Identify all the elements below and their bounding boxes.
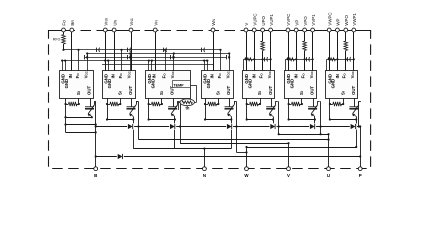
- resistor R3 gate: [152, 102, 161, 106]
- wire Q1 collector to B column: [95, 101, 96, 103]
- pin VVP1 (top terminal): [311, 28, 315, 32]
- pin WPO (top terminal): [344, 28, 348, 32]
- wire cell5 emitter tie: [247, 119, 273, 121]
- svg-text:SI: SI: [159, 91, 164, 95]
- svg-text:FO: FO: [342, 73, 347, 79]
- wire cell5 Si stub: [260, 98, 262, 104]
- wire top rail segment: [210, 30, 219, 32]
- wire WN input drop: [114, 30, 116, 71]
- svg-text:VCC: VCC: [170, 70, 175, 78]
- wire UN input drop: [213, 30, 215, 71]
- wire cell1 ties to B column: [66, 124, 96, 126]
- wire cell1 emitter tie: [66, 117, 92, 119]
- wire block3 GND stub: [148, 61, 150, 71]
- wire thermistor lead: [178, 102, 180, 104]
- svg-text:VVP1: VVP1: [311, 14, 316, 26]
- wire top rail segment: [102, 30, 140, 32]
- wire cell1 OUT to gate: [90, 98, 92, 107]
- svg-text:B: B: [94, 173, 97, 178]
- thermistor th: [180, 99, 194, 106]
- wire cell2 emitter tie: [107, 119, 133, 121]
- pin U (bottom terminal): [327, 167, 331, 171]
- wire Q4 collector: [234, 101, 236, 105]
- wire group3 input drop: [337, 30, 339, 71]
- svg-text:SI: SI: [340, 91, 345, 95]
- wire P column: [360, 127, 362, 169]
- wire Q7 emitter: [356, 117, 358, 120]
- pin B (bottom terminal): [94, 167, 98, 171]
- svg-text:th: th: [186, 106, 190, 111]
- svg-text:VN1: VN1: [129, 18, 134, 26]
- pin V (top terminal): [129, 28, 133, 32]
- svg-text:VVPC: VVPC: [286, 14, 291, 26]
- capacitor C8 bootstrap: [306, 57, 308, 61]
- svg-text:OUT: OUT: [128, 86, 133, 95]
- svg-text:GND: GND: [247, 79, 252, 89]
- wire block4 Vcc stub: [229, 54, 231, 71]
- transistor Q5 IGBT: [266, 105, 276, 117]
- svg-text:GND: GND: [289, 79, 294, 89]
- wire Q4 collector to output: [236, 101, 238, 152]
- resistor R5 gate: [250, 102, 259, 106]
- resistor R3G: [328, 58, 336, 61]
- wire cell3 emitter tie: [149, 119, 175, 121]
- wire cell4 Si stub: [218, 98, 220, 104]
- svg-text:OUT: OUT: [310, 86, 315, 95]
- wire Fo bus: [64, 49, 221, 51]
- wire aux bus: [102, 64, 213, 66]
- wire W-high link: [247, 147, 357, 149]
- wire block4 GND stub: [204, 61, 206, 71]
- wire cell5 OUT to gate: [271, 98, 273, 107]
- svg-text:V: V: [244, 23, 249, 26]
- svg-text:VCC: VCC: [225, 70, 230, 78]
- capacitor C2b on Fo bus: [163, 48, 165, 52]
- capacitor C5 decoupling block 3: [170, 55, 172, 59]
- wire group3 bus tail: [326, 59, 328, 70]
- svg-text:IN: IN: [252, 74, 257, 78]
- wire BR input drop: [71, 30, 73, 71]
- module outline (dash-dot package boundary): [49, 31, 371, 169]
- svg-text:OUT: OUT: [268, 86, 273, 95]
- pin VUP1 (top terminal): [269, 28, 273, 32]
- svg-text:FO: FO: [62, 20, 67, 26]
- capacitor C2c on Fo bus: [201, 48, 203, 52]
- svg-text:UN: UN: [112, 19, 117, 25]
- wire Q5 collector: [275, 101, 277, 105]
- transistor Q1 IGBT: [85, 105, 95, 117]
- wire cell4 OUT to gate: [229, 98, 231, 107]
- svg-text:VCC: VCC: [350, 70, 355, 78]
- wire cell3 Si stub: [161, 98, 163, 104]
- pin W (bottom terminal): [245, 167, 249, 171]
- wire cell1 left rail: [65, 98, 67, 132]
- svg-text:SI: SI: [299, 91, 304, 95]
- svg-text:GND: GND: [150, 79, 155, 89]
- wire Q6 collector: [317, 101, 319, 105]
- resistor R1G: [245, 58, 253, 61]
- wire GND bus: [63, 60, 209, 62]
- pin U (top terminal): [112, 28, 116, 32]
- wire Q7 emitter to W link: [356, 120, 358, 148]
- wire TEMP to thermistor: [190, 85, 196, 87]
- svg-text:VWP1: VWP1: [352, 13, 357, 26]
- svg-text:SI: SI: [257, 91, 262, 95]
- pin B (top terminal): [70, 28, 74, 32]
- svg-text:WPO: WPO: [344, 15, 349, 26]
- wire Q2 emitter: [133, 117, 135, 120]
- svg-text:VCC: VCC: [126, 70, 131, 78]
- op-amp U-high driver U7 gate-driver IC block: [326, 70, 358, 98]
- wire cell4 left rail: [205, 98, 207, 119]
- resistor R1B bootstrap (vertical): [262, 30, 264, 41]
- resistor R2 gate: [110, 102, 119, 106]
- svg-text:RFO: RFO: [53, 37, 61, 42]
- wire Q5 emitter: [273, 117, 275, 120]
- svg-text:IN: IN: [68, 74, 73, 78]
- wire Q4 emitter: [231, 117, 233, 120]
- svg-text:SI: SI: [76, 91, 81, 95]
- wire group2 Vs drop: [312, 30, 314, 71]
- transistor Q3 IGBT: [168, 105, 178, 117]
- svg-text:VCC: VCC: [267, 70, 272, 78]
- svg-text:U: U: [327, 173, 330, 178]
- wire Q7 collector: [358, 101, 360, 105]
- wire group3 Vs drop: [353, 30, 355, 71]
- wire block2 GND stub: [105, 61, 107, 71]
- diode D3 freewheel: [227, 124, 232, 129]
- resistor R2B bootstrap (vertical): [304, 30, 306, 41]
- wire cell2 OUT to gate: [131, 98, 133, 107]
- wire Vcc bus: [88, 53, 230, 55]
- wire block1 Vcc stub: [87, 54, 89, 71]
- pin V (top terminal): [153, 28, 157, 32]
- svg-text:GND: GND: [64, 79, 69, 89]
- pin VVPC (top terminal): [286, 28, 290, 32]
- wire Q1 emitter: [91, 116, 93, 119]
- wire Q2 emitter to N bus: [133, 120, 135, 149]
- wire cell6 emitter tie: [289, 119, 315, 121]
- wire V output line: [180, 143, 288, 145]
- wire group2 VBS drop: [288, 30, 290, 71]
- wire VN input drop: [155, 30, 157, 71]
- svg-text:GND: GND: [331, 79, 336, 89]
- capacitor C4 decoupling block 2: [127, 55, 129, 59]
- diode D1 freewheel: [128, 124, 133, 129]
- op-amp V-low driver U3 (with TEMP) gate-driver IC block: [146, 70, 191, 98]
- op-amp W-high driver U5 gate-driver IC block: [243, 70, 275, 98]
- svg-text:VPO: VPO: [303, 16, 308, 26]
- wire cell7 left rail: [329, 98, 331, 119]
- wire Q3 emitter to N bus: [174, 120, 176, 149]
- wire cell2 left rail: [107, 98, 109, 119]
- transistor Q7 IGBT: [349, 105, 359, 117]
- pin VWPC (top terminal): [327, 28, 331, 32]
- diode D4 freewheel: [270, 124, 275, 129]
- pin P (bottom terminal): [358, 167, 362, 171]
- svg-text:GND: GND: [107, 79, 112, 89]
- wire block1 Fo stub: [78, 50, 80, 71]
- svg-text:IN: IN: [111, 74, 116, 78]
- node B column: [95, 101, 97, 168]
- wire W column: [246, 152, 248, 168]
- wire decoupling bus: [85, 57, 226, 59]
- svg-text:FO: FO: [258, 73, 263, 79]
- pin VPO (top terminal): [303, 28, 307, 32]
- wire Q5 emitter to output link: [278, 101, 280, 134]
- transistor Q6 IGBT: [308, 105, 318, 117]
- wire block3 Vcc stub: [173, 54, 175, 71]
- wire V column: [288, 143, 290, 169]
- wire cell5 left rail: [246, 98, 248, 119]
- svg-text:WN: WN: [211, 18, 216, 25]
- wire group1 local bus: [244, 59, 271, 61]
- svg-text:FO: FO: [75, 73, 80, 79]
- op-amp U-low driver U4 gate-driver IC block: [202, 70, 234, 98]
- pin VP (top terminal): [294, 28, 298, 32]
- wire group1 Vs drop: [270, 30, 272, 71]
- wire group1 VBS drop: [246, 30, 248, 71]
- wire W column upper: [246, 147, 248, 152]
- resistor R2G: [287, 58, 295, 61]
- op-amp W-low driver U2 gate-driver IC block: [103, 70, 136, 98]
- pin V (top terminal): [103, 28, 107, 32]
- capacitor C9 bootstrap: [347, 57, 349, 61]
- svg-text:OUT: OUT: [87, 86, 92, 95]
- wire block4 Fo stub: [220, 50, 222, 71]
- wire U column: [328, 134, 330, 169]
- svg-text:FO: FO: [300, 73, 305, 79]
- svg-text:VUPC: VUPC: [252, 13, 257, 25]
- svg-text:VCC: VCC: [309, 70, 314, 78]
- wire group1 input drop: [254, 30, 256, 71]
- wire top rail segment: [152, 30, 159, 32]
- diode D7 brake: [118, 154, 123, 159]
- wire Q2 collector: [136, 101, 138, 105]
- pin VWP1 (top terminal): [352, 28, 356, 32]
- wire U-high link: [279, 134, 329, 136]
- svg-text:N: N: [203, 173, 206, 178]
- wire Q3 collector to output: [180, 101, 182, 143]
- wire block2 Vcc stub: [130, 54, 132, 71]
- pin N (bottom terminal): [203, 167, 207, 171]
- capacitor C7 bootstrap: [264, 57, 266, 61]
- wire group2 bus tail: [285, 59, 287, 70]
- capacitor C2 on Fo bus: [127, 48, 129, 52]
- transistor Q4 IGBT: [225, 105, 235, 117]
- resistor RFO: [63, 30, 65, 35]
- wire cell1 Si stub: [78, 98, 80, 104]
- pin V (bottom terminal): [287, 167, 291, 171]
- pin F (top terminal): [62, 28, 66, 32]
- wire block3 Fo stub: [165, 50, 167, 71]
- wire block1 GND stub: [62, 61, 64, 71]
- wire Q6 emitter: [314, 117, 316, 120]
- wire VN0 drop: [105, 30, 107, 71]
- wire N column: [204, 149, 206, 169]
- svg-text:SI: SI: [118, 91, 123, 95]
- capacitor C3 decoupling block 1: [84, 55, 86, 59]
- pin V (top terminal): [244, 28, 248, 32]
- wire Q3 emitter: [174, 117, 176, 120]
- svg-text:WP: WP: [336, 18, 341, 25]
- svg-text:FO: FO: [162, 73, 167, 79]
- wire cell6 left rail: [288, 98, 290, 119]
- wire group3 VBS drop: [329, 30, 331, 71]
- wire cell2 Si stub: [120, 98, 122, 104]
- svg-text:UPO: UPO: [261, 16, 266, 26]
- svg-text:OUT: OUT: [226, 86, 231, 95]
- wire block2 Fo stub: [121, 50, 123, 71]
- wire group1 bus tail: [243, 59, 245, 70]
- svg-text:VN: VN: [153, 20, 158, 26]
- wire top rail segment: [48, 30, 75, 32]
- wire W-low link: [237, 152, 247, 154]
- wire Q4 emitter to N bus: [231, 120, 233, 149]
- wire top rail segment: [243, 30, 371, 32]
- wire Q1 collector: [94, 101, 96, 105]
- op-amp V-high driver U6 gate-driver IC block: [285, 70, 317, 98]
- transistor Q2 IGBT: [127, 105, 137, 117]
- wire N bus: [133, 148, 231, 150]
- svg-text:FO: FO: [217, 73, 222, 79]
- wire B-P brake line: [96, 156, 361, 158]
- op-amp brake driver U1 gate-driver IC block: [60, 70, 94, 98]
- svg-text:OUT: OUT: [351, 86, 356, 95]
- capacitor C6 decoupling block 4: [226, 55, 228, 59]
- svg-text:IN: IN: [335, 74, 340, 78]
- wire cell7 Si stub: [343, 98, 345, 104]
- wire Q2 collector to output: [138, 101, 140, 139]
- wire cell4 emitter tie: [205, 119, 231, 121]
- wire VN1 drop: [131, 30, 133, 71]
- svg-text:VP: VP: [294, 20, 299, 26]
- diode D6 freewheel: [351, 124, 356, 129]
- svg-text:BR: BR: [70, 20, 75, 26]
- wire group2 local bus: [286, 59, 313, 61]
- svg-text:SI: SI: [216, 91, 221, 95]
- wire group3 local bus: [327, 59, 354, 61]
- svg-text:TEMP: TEMP: [173, 83, 184, 87]
- svg-text:VN0: VN0: [104, 18, 109, 26]
- pin UPO (top terminal): [261, 28, 265, 32]
- resistor R7 gate: [333, 102, 342, 106]
- wire Q6 to P bus: [314, 120, 316, 127]
- wire Q3 collector: [177, 101, 179, 105]
- svg-text:IN: IN: [152, 74, 157, 78]
- svg-text:VWPC: VWPC: [327, 12, 332, 25]
- pin VUPC (top terminal): [252, 28, 256, 32]
- pin W (top terminal): [211, 28, 215, 32]
- capacitor C1 on Fo bus: [96, 48, 98, 52]
- svg-text:FO: FO: [118, 73, 123, 79]
- svg-text:VUP1: VUP1: [269, 14, 274, 26]
- svg-text:IN: IN: [210, 74, 215, 78]
- diode D5 freewheel: [310, 124, 315, 129]
- resistor R6 gate: [292, 102, 301, 106]
- wire Q6 emitter to output link: [320, 101, 322, 134]
- resistor R3B bootstrap (vertical): [345, 30, 347, 41]
- wire cell7 emitter tie: [330, 119, 356, 121]
- diode D2 freewheel: [170, 124, 175, 129]
- pin WP (top terminal): [336, 28, 340, 32]
- svg-text:IN: IN: [294, 74, 299, 78]
- resistor R4 gate: [208, 102, 217, 106]
- wire cell6 OUT to gate: [313, 98, 315, 107]
- wire cell3 left rail: [148, 98, 150, 119]
- wire Q7 collector to P bus: [358, 101, 360, 126]
- svg-text:GND: GND: [206, 79, 211, 89]
- wire U-low output line: [139, 139, 329, 141]
- wire P/diode bus: [96, 126, 361, 128]
- wire Q5 to P bus: [273, 120, 275, 127]
- wire cell7 OUT to gate: [354, 98, 356, 107]
- wire cell6 Si stub: [301, 98, 303, 104]
- svg-text:P: P: [359, 173, 362, 178]
- svg-text:V: V: [287, 173, 290, 178]
- wire group2 input drop: [296, 30, 298, 71]
- svg-text:VCC: VCC: [83, 70, 88, 78]
- resistor R1 gate: [69, 102, 78, 106]
- wire cell3 OUT to gate: [173, 98, 175, 107]
